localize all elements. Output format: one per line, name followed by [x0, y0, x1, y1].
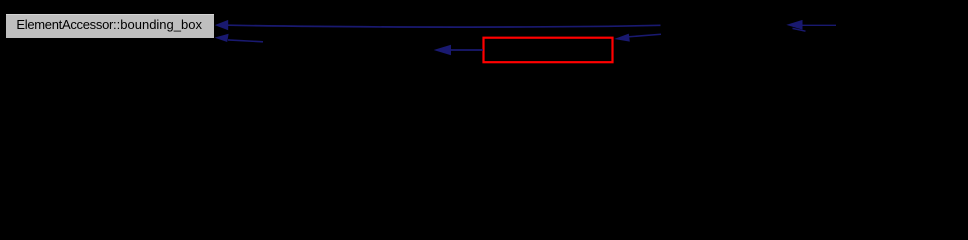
node ElementAccessor::bounding_box (current, grey)	[6, 14, 214, 38]
wire: edge C line toward grey box bottom corner	[228, 40, 263, 42]
wire: edge B line into red box	[629, 34, 661, 37]
wire: edge A line into grey box	[228, 25, 661, 27]
arrowhead: edge C into grey box bottom-right corner	[215, 34, 229, 42]
arrowhead: edge F pointing left	[786, 20, 802, 30]
arrowhead: edge D pointing left	[434, 45, 451, 56]
wire: edge G short diagonal stub	[793, 28, 806, 31]
node: truncated red box	[484, 38, 613, 63]
wire: edge D line leaving red box left edge	[451, 49, 484, 51]
wire: edge F line at far right	[803, 24, 837, 26]
arrowhead: edge B into red box top-right corner	[614, 34, 630, 42]
arrowhead: edge A into grey box right edge	[215, 20, 228, 30]
